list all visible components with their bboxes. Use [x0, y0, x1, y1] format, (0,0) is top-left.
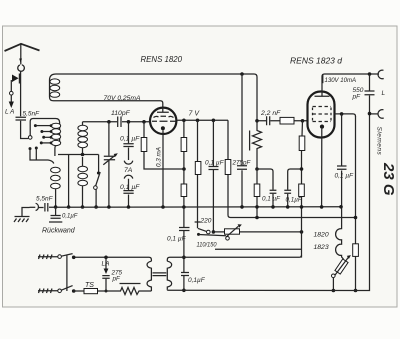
svg-text:275pF: 275pF	[232, 160, 252, 167]
svg-text:pF: pF	[112, 276, 122, 283]
svg-text:0,3 mA: 0,3 mA	[156, 147, 163, 167]
svg-text:220: 220	[200, 218, 212, 225]
svg-text:Siemens: Siemens	[376, 127, 383, 156]
svg-text:5,5nF: 5,5nF	[36, 196, 54, 203]
svg-text:L: L	[382, 90, 386, 97]
svg-text:1820: 1820	[314, 232, 329, 239]
svg-text:5,5nF: 5,5nF	[23, 111, 41, 118]
svg-text:0,1 µF: 0,1 µF	[335, 173, 355, 180]
svg-text:0,1 µF: 0,1 µF	[120, 184, 140, 191]
svg-text:70V 0,25mA: 70V 0,25mA	[104, 95, 141, 102]
svg-text:0,1 µF: 0,1 µF	[262, 196, 281, 203]
svg-text:TS: TS	[85, 282, 94, 289]
svg-text:pF: pF	[352, 94, 362, 101]
svg-text:23 G: 23 G	[380, 162, 397, 196]
svg-text:0,1µF: 0,1µF	[188, 277, 206, 284]
svg-text:Rückwand: Rückwand	[42, 228, 76, 235]
svg-text:110/150: 110/150	[197, 241, 217, 248]
svg-text:0,1µF: 0,1µF	[62, 214, 78, 220]
svg-text:RENS 1823 d: RENS 1823 d	[290, 56, 342, 66]
svg-text:L A: L A	[5, 109, 14, 116]
svg-text:0,1µF: 0,1µF	[286, 197, 303, 204]
svg-text:7 V: 7 V	[189, 111, 201, 118]
svg-text:130V 10mA: 130V 10mA	[325, 77, 357, 84]
svg-text:0,1 µF: 0,1 µF	[167, 236, 187, 243]
svg-text:RENS 1820: RENS 1820	[141, 54, 183, 64]
svg-text:1823: 1823	[314, 244, 329, 251]
svg-text:0,1 µF: 0,1 µF	[205, 160, 225, 167]
svg-text:7A: 7A	[124, 167, 133, 174]
svg-text:110pF: 110pF	[111, 110, 131, 117]
svg-text:2,2 nF: 2,2 nF	[260, 110, 281, 117]
svg-text:0,1 µF: 0,1 µF	[120, 136, 140, 143]
